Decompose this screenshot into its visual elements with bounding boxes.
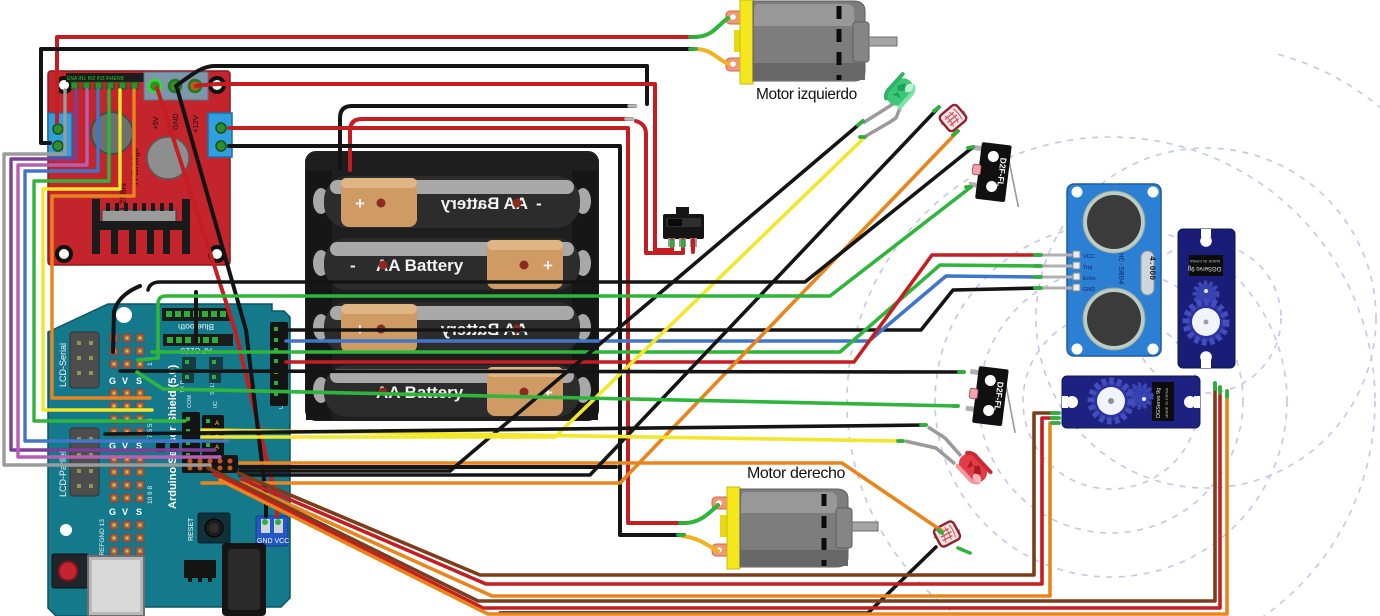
wire yellow pigtail motor derecho - — [682, 536, 718, 551]
wire orange servo SV2 ground — [246, 423, 1055, 596]
servo SV1 gears — [1195, 283, 1217, 305]
wire red battery plus — [350, 119, 632, 170]
wire black shield to motor branch — [240, 465, 616, 469]
svg-text:+: + — [355, 194, 365, 213]
svg-text:DGServo 9g: DGServo 9g — [1156, 388, 1162, 418]
svg-text:-: - — [536, 194, 542, 213]
wire black shield to switch S2 — [120, 371, 964, 372]
wire green IN4 to shield — [34, 90, 185, 421]
L298N capacitor C2 — [147, 137, 189, 179]
shield bottom-right pin grid — [182, 455, 238, 473]
shield digital pin grids with G V S headers — [99, 334, 154, 560]
LED D1 (green) legs — [863, 104, 900, 136]
wire purple IN1 to shield — [11, 90, 215, 450]
wire black GND to shield GND — [177, 88, 266, 516]
svg-text:AREFGND 13: AREFGND 13 — [99, 519, 106, 560]
HC-SR04 transducer R — [1083, 288, 1145, 350]
svg-text:RESET: RESET — [188, 517, 195, 541]
svg-text:10 9 8: 10 9 8 — [147, 486, 154, 504]
HC-SR04 pins VCC Trig Echo GND — [1042, 255, 1074, 288]
svg-text:+5V: +5V — [151, 116, 160, 130]
svg-text:MADE IN CHINA: MADE IN CHINA — [1164, 387, 1169, 418]
arduino USB connector — [88, 556, 144, 616]
wire red servo SV1 power — [214, 387, 1220, 608]
svg-text:VCC: VCC — [1083, 254, 1095, 260]
wire yellow shield to red LED — [202, 430, 903, 441]
wire black motor A - — [41, 49, 696, 143]
servo SV2 gears — [1129, 385, 1151, 407]
wire red +5V to shield VCC — [157, 88, 277, 516]
wire yellow ENB to shield — [43, 90, 152, 410]
shield small labels TX RX COM SCL IIC — [180, 370, 285, 409]
svg-text:-: - — [350, 256, 356, 275]
wire brown servo SV2 signal — [238, 413, 1055, 575]
L298N power screw terminal +5V GND +12V — [144, 72, 208, 100]
wire gray ENA to shield — [4, 90, 210, 465]
motor driver U1 L298N H-Bridge board — [48, 71, 232, 265]
svg-text:MADE IN CHINA: MADE IN CHINA — [1189, 259, 1220, 264]
svg-text:AA Battery: AA Battery — [376, 256, 464, 275]
shield LCD-Parallel connector — [70, 428, 99, 496]
wire yellow pigtail motor izquierdo - — [694, 49, 728, 64]
wire brown servo SV1 signal — [208, 383, 1215, 601]
svg-text:Arduino Sensor Shield (5.0): Arduino Sensor Shield (5.0) — [167, 364, 179, 509]
shield right edge pin column — [270, 322, 288, 406]
connection tips (green caps) — [672, 37, 1227, 535]
svg-text:IIC: IIC — [213, 401, 219, 408]
L298N label text — [118, 147, 140, 210]
wire red motor B to motor derecho — [229, 128, 686, 523]
wire orange shield to LDR2 — [240, 463, 942, 531]
wire green shield to HC-SR04 Trig — [152, 265, 1040, 352]
svg-text:Echo: Echo — [1083, 276, 1096, 282]
motor M1 Motor izquierdo — [726, 0, 897, 84]
wire red +12V to slide switch pin 1 — [196, 84, 672, 250]
shield LCD-Serial connector — [70, 332, 99, 388]
wire orange shield to LDR1 — [202, 131, 958, 483]
wire green pigtail motor izquierdo + — [694, 18, 728, 37]
wire red slide switch pin 3 stub — [691, 240, 695, 252]
shield small 2x2 headers — [182, 357, 223, 383]
svg-text:GND: GND — [1083, 287, 1095, 293]
battery AA cell 1 (reversed) — [313, 176, 591, 228]
wire black GND to battery junction — [176, 66, 647, 104]
wire green pigtail motor derecho + — [684, 505, 718, 523]
Arduino + Sensor Shield 5.0 board — [48, 304, 290, 616]
wire black stub header — [113, 286, 140, 352]
svg-text:4.000: 4.000 — [1147, 256, 1156, 280]
shield GND VCC terminal — [256, 516, 288, 546]
svg-text:S: S — [136, 507, 142, 517]
servo SV1 (vertical 9g) — [1178, 229, 1235, 368]
wire black shield to red LED — [105, 425, 926, 434]
microswitch S1 D2F-FL — [967, 141, 1026, 207]
ultrasonic sensor HC-SR04 — [1042, 184, 1161, 356]
svg-text:COM: COM — [187, 395, 193, 408]
wire orange servo SV1 ground — [220, 391, 1227, 614]
svg-text:G: G — [109, 507, 116, 517]
shield APC220 header — [163, 334, 233, 346]
photoresistor LDR1 — [937, 102, 970, 134]
wire black shield to LDR1 — [240, 107, 939, 475]
L298N capacitor C — [91, 112, 133, 154]
wire blue IN3 to shield — [25, 90, 228, 441]
LED D2 (red) legs — [905, 427, 961, 464]
svg-text:Motor derecho: Motor derecho — [747, 465, 845, 482]
wire black battery minus — [340, 106, 635, 168]
LED D1 (green) — [882, 74, 917, 110]
battery AA cell 4 — [313, 365, 591, 417]
svg-text:Motor izquierdo: Motor izquierdo — [756, 86, 857, 103]
wire red shield to HC-SR04 VCC — [286, 255, 1040, 362]
battery holder BT1 (4xAA) — [306, 152, 598, 420]
LED D2 (red) — [955, 449, 992, 486]
wire black shield to green LED — [240, 121, 863, 471]
wire red motor A + — [57, 37, 696, 122]
HC-SR04 transducer T — [1083, 191, 1145, 253]
svg-text:+12V: +12V — [191, 115, 200, 133]
L298N multiwatt chip and heatsink — [102, 210, 176, 222]
svg-text:G: G — [109, 376, 116, 386]
microswitch S2 D2F-FL — [964, 365, 1023, 433]
motor M2 Motor derecho — [712, 487, 878, 569]
wire black shield to HC-SR04 GND — [286, 288, 1040, 330]
wire red servo SV2 power — [242, 418, 1055, 584]
svg-text:+: + — [543, 256, 553, 275]
L298N motor B terminal (right) — [208, 113, 232, 157]
wire green LDR2 stub — [958, 548, 970, 553]
arduino reset button (red) — [52, 554, 88, 588]
svg-text:ENA IN1 IN2 IN3 IN4ENB: ENA IN1 IN2 IN3 IN4ENB — [67, 76, 125, 82]
L298N control pin header ENA..ENB — [66, 73, 144, 82]
wire orange to shield — [52, 90, 150, 398]
L298N motor A terminal (left) — [48, 113, 72, 157]
svg-text:V: V — [122, 376, 128, 386]
battery AA cell 2 — [313, 238, 591, 290]
svg-text:LCD-Serial: LCD-Serial — [58, 343, 68, 387]
servo SV2 (horizontal 9g) — [1062, 376, 1200, 428]
slide switch SW1 (power) — [663, 207, 704, 247]
svg-text:HC-SR04: HC-SR04 — [1116, 253, 1124, 285]
HC-SR04 crystal 4.000 — [1141, 251, 1154, 295]
svg-text:GND: GND — [171, 113, 180, 130]
shield Bluetooth header — [162, 308, 230, 321]
wire black stub APC220 — [194, 292, 198, 342]
wire green shield to switch S2 — [137, 372, 958, 406]
arduino voltage regulator — [184, 560, 216, 578]
servo rotation dashed arcs — [847, 54, 1380, 616]
svg-text:V: V — [122, 507, 128, 517]
wire red slide switch pin 2 — [636, 121, 683, 253]
battery AA cell 3 (reversed) — [313, 302, 591, 354]
svg-text:DGServo 9g: DGServo 9g — [1188, 265, 1221, 271]
svg-text:A: A — [215, 421, 219, 427]
arduino power jack — [222, 543, 266, 616]
shield central servo/analog header — [182, 412, 200, 468]
wire end ferrules (gray) — [626, 106, 636, 119]
wire yellow shield to green LED — [202, 137, 865, 437]
wire black motor B to motor derecho — [229, 146, 684, 535]
wire green shield to switch S1 — [138, 187, 971, 360]
shield RESET button — [198, 513, 230, 543]
photoresistor LDR2 — [931, 519, 963, 549]
wire black LDR2 return — [500, 547, 936, 613]
wire black shield to switch S1 — [148, 147, 973, 290]
wire magenta IN2 to shield — [18, 90, 220, 457]
svg-text:Trig: Trig — [1083, 265, 1092, 271]
wire blue shield to HC-SR04 Echo — [286, 276, 1040, 341]
svg-text:S: S — [136, 376, 142, 386]
